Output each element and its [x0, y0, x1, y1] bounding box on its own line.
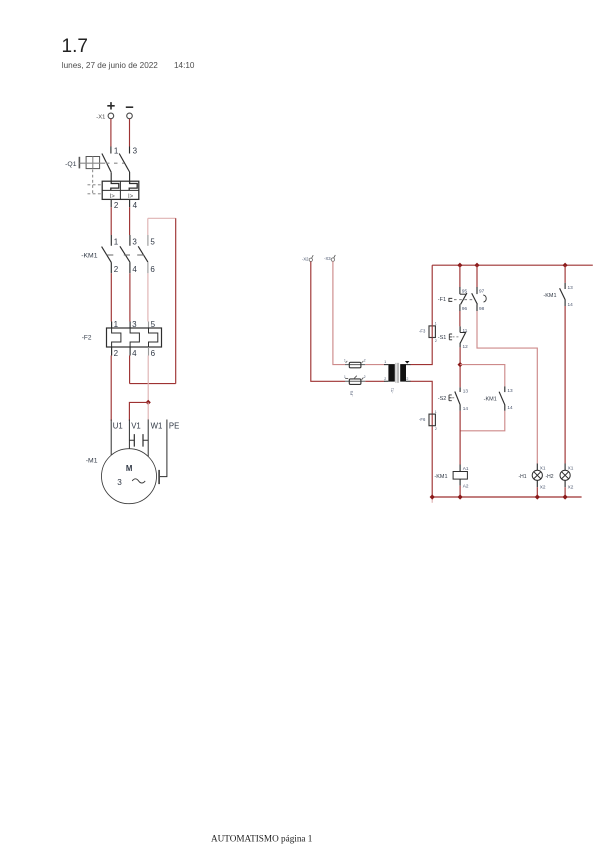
fuse F4 (upper primary): [344, 358, 366, 367]
wire secondary top to fuse F3: [411, 338, 433, 365]
svg-text:W1: W1: [151, 421, 163, 430]
svg-text:2: 2: [114, 201, 119, 210]
svg-text:2: 2: [435, 427, 437, 431]
page title 1.7: [62, 36, 88, 57]
wire coil A2 to bottom rail: [459, 486, 461, 497]
wire F2.6 down to node: [147, 356, 149, 403]
svg-text:11: 11: [463, 328, 468, 333]
wire F2.4 down: [129, 356, 131, 384]
wire node to W1: [147, 402, 149, 420]
svg-text:6: 6: [150, 265, 155, 274]
svg-text:13: 13: [568, 285, 574, 290]
node bottom rail H1: [535, 494, 540, 499]
wire - supply down: [129, 119, 131, 147]
svg-text:14: 14: [568, 302, 574, 307]
svg-text:X1: X1: [568, 465, 574, 470]
svg-text:A2: A2: [463, 484, 469, 489]
wire loop right vertical: [175, 218, 177, 383]
svg-text:-KM1: -KM1: [81, 253, 97, 260]
indicator lamp H1: [518, 464, 545, 490]
wire S1.12 down: [459, 347, 461, 387]
wire latch branch top: [460, 365, 505, 387]
node bottom rail H2: [563, 494, 568, 499]
svg-text:1: 1: [114, 238, 119, 247]
svg-text:2: 2: [406, 377, 408, 381]
wire fuse to transformer primary top: [365, 364, 384, 366]
wire node to V1: [129, 402, 148, 420]
svg-text:-X1: -X1: [96, 114, 105, 120]
svg-text:lunes, 27 de junio de 2022: lunes, 27 de junio de 2022: [62, 61, 159, 70]
svg-text:-KM1: -KM1: [543, 293, 556, 299]
wire N down and to fuse: [333, 261, 345, 364]
svg-text:6: 6: [151, 349, 156, 358]
svg-text:3: 3: [117, 478, 122, 487]
svg-text:-KM1: -KM1: [434, 474, 447, 480]
svg-text:-F3: -F3: [419, 329, 426, 334]
svg-text:-M1: -M1: [86, 457, 98, 464]
fuse F6 (neutral secondary): [419, 410, 437, 431]
svg-text:96: 96: [462, 306, 468, 311]
terminal -X2 (L): [302, 255, 313, 261]
svg-text:2: 2: [384, 377, 386, 381]
svg-text:-KM1: -KM1: [484, 396, 497, 402]
svg-text:-S2: -S2: [438, 396, 447, 402]
svg-text:M: M: [126, 464, 132, 473]
svg-text:AUTOMATISMO página 1: AUTOMATISMO página 1: [211, 834, 313, 844]
svg-text:13: 13: [463, 388, 469, 393]
svg-text:3: 3: [132, 238, 137, 247]
svg-text:I>: I>: [128, 194, 134, 200]
start pushbutton S2 (NO): [438, 387, 469, 411]
fuse F5 (lower primary, with strike): [344, 375, 366, 397]
svg-text:1.7: 1.7: [62, 36, 88, 57]
svg-text:PE: PE: [169, 421, 179, 430]
svg-text:X2: X2: [568, 484, 574, 489]
svg-text:-X2: -X2: [302, 257, 309, 262]
svg-text:1: 1: [435, 410, 437, 414]
minus polarity mark: [126, 106, 133, 108]
svg-text:A1: A1: [463, 466, 469, 471]
wire KM1.4 to F2.3: [129, 273, 131, 321]
svg-text:1: 1: [344, 375, 346, 379]
svg-text:4: 4: [133, 201, 138, 210]
contactor KM1 main contacts: [81, 235, 155, 274]
wire F2.2 to U1: [110, 356, 112, 421]
wire loop to KM1.5: [147, 218, 149, 235]
wire fuse to transformer primary bottom: [365, 380, 384, 382]
wire through fuse F3: [431, 326, 433, 338]
svg-text:-H2: -H2: [545, 474, 553, 480]
bottom rail: [432, 496, 581, 498]
svg-text:4: 4: [132, 265, 137, 274]
contactor coil KM1: [434, 465, 468, 489]
svg-text:-H1: -H1: [518, 474, 526, 480]
wire Q1.4 to KM1.3: [129, 207, 131, 235]
wire Q1.2 to KM1.1: [110, 207, 112, 235]
svg-text:-F5: -F5: [350, 391, 354, 397]
wire L down and to fuse: [311, 262, 345, 382]
svg-text:-S1: -S1: [438, 335, 447, 341]
indicator lamp H2: [545, 464, 573, 490]
wire + supply down: [110, 119, 112, 147]
plus polarity mark: [107, 102, 114, 109]
svg-text:2: 2: [364, 375, 366, 379]
node bottom rail left: [430, 494, 435, 499]
wire stub below rail left end: [431, 497, 433, 503]
stop pushbutton S1 (NC): [438, 326, 468, 349]
wire loop upper horizontal: [148, 217, 176, 219]
svg-text:-Q1: -Q1: [65, 161, 77, 168]
wire S2.14 to coil A1: [459, 411, 461, 465]
svg-text:14:10: 14:10: [174, 61, 195, 70]
svg-text:12: 12: [463, 344, 469, 349]
svg-text:2: 2: [114, 265, 119, 274]
terminal -X3 (N): [324, 255, 335, 261]
capacitor between V1 and W1: [129, 434, 148, 447]
svg-text:-F1: -F1: [438, 297, 446, 303]
svg-text:X1: X1: [540, 465, 546, 470]
motor M1: [86, 420, 180, 504]
wire H2 to bottom rail: [564, 487, 566, 497]
svg-text:95: 95: [462, 289, 468, 294]
node rail/F1.95: [457, 263, 462, 268]
svg-text:2: 2: [114, 349, 119, 358]
node bottom rail coil: [458, 494, 463, 499]
thermal overload relay F2: [82, 320, 162, 358]
svg-text:-T1: -T1: [391, 388, 395, 394]
wire KM1.14 to lamp H2: [564, 306, 566, 464]
svg-text:2: 2: [364, 358, 366, 362]
wire latch branch bottom: [460, 411, 505, 431]
svg-text:3: 3: [133, 146, 138, 155]
circuit breaker Q1: [65, 146, 139, 210]
terminal -X1 (-): [127, 113, 133, 119]
svg-text:14: 14: [507, 405, 513, 410]
fuse F3 (secondary): [419, 322, 437, 343]
wire F1.98 to lamp H1: [477, 311, 537, 464]
wire F1.96 to S1.11: [459, 311, 461, 326]
svg-text:1: 1: [344, 358, 346, 362]
svg-text:4: 4: [132, 349, 137, 358]
wire H1 to bottom rail: [536, 487, 538, 497]
transformer T1: [384, 360, 411, 393]
svg-text:1: 1: [435, 322, 437, 326]
svg-text:97: 97: [479, 289, 485, 294]
svg-text:U1: U1: [113, 421, 123, 430]
svg-text:13: 13: [507, 388, 513, 393]
node latch branch: [458, 362, 463, 367]
wire KM1.2 to F2.1: [110, 273, 112, 321]
node junction V1/W1: [146, 400, 151, 405]
wire KM1.6 to F2.5: [147, 273, 149, 321]
svg-text:I>: I>: [110, 194, 116, 200]
svg-text:X2: X2: [540, 484, 546, 489]
node rail/KM1.13 right: [563, 263, 568, 268]
wire fuse F3 to top rail: [431, 265, 433, 326]
date line: [62, 61, 195, 70]
svg-text:14: 14: [463, 406, 469, 411]
svg-text:-F6: -F6: [419, 417, 426, 422]
svg-text:-F2: -F2: [82, 334, 92, 341]
wire loop bottom horizontal: [130, 383, 176, 385]
svg-text:5: 5: [150, 238, 155, 247]
auxiliary contact KM1 (lamp H2): [543, 265, 573, 307]
top rail: [432, 264, 593, 266]
svg-text:V1: V1: [131, 421, 141, 430]
auxiliary contact KM1 (latch): [484, 386, 513, 410]
svg-text:1: 1: [114, 146, 119, 155]
svg-text:1: 1: [384, 360, 386, 364]
svg-text:2: 2: [435, 339, 437, 343]
svg-text:98: 98: [479, 306, 485, 311]
node rail/F1.97: [474, 263, 479, 268]
PE conductor and motor frame connection: [159, 420, 167, 485]
svg-text:-X3: -X3: [324, 256, 331, 261]
thermal relay contact F1 (95-96 NC / 97-98 NO): [438, 265, 486, 311]
footer: [211, 834, 313, 844]
wire secondary bottom to bottom rail: [411, 381, 433, 497]
terminal -X1 (+): [96, 113, 113, 120]
